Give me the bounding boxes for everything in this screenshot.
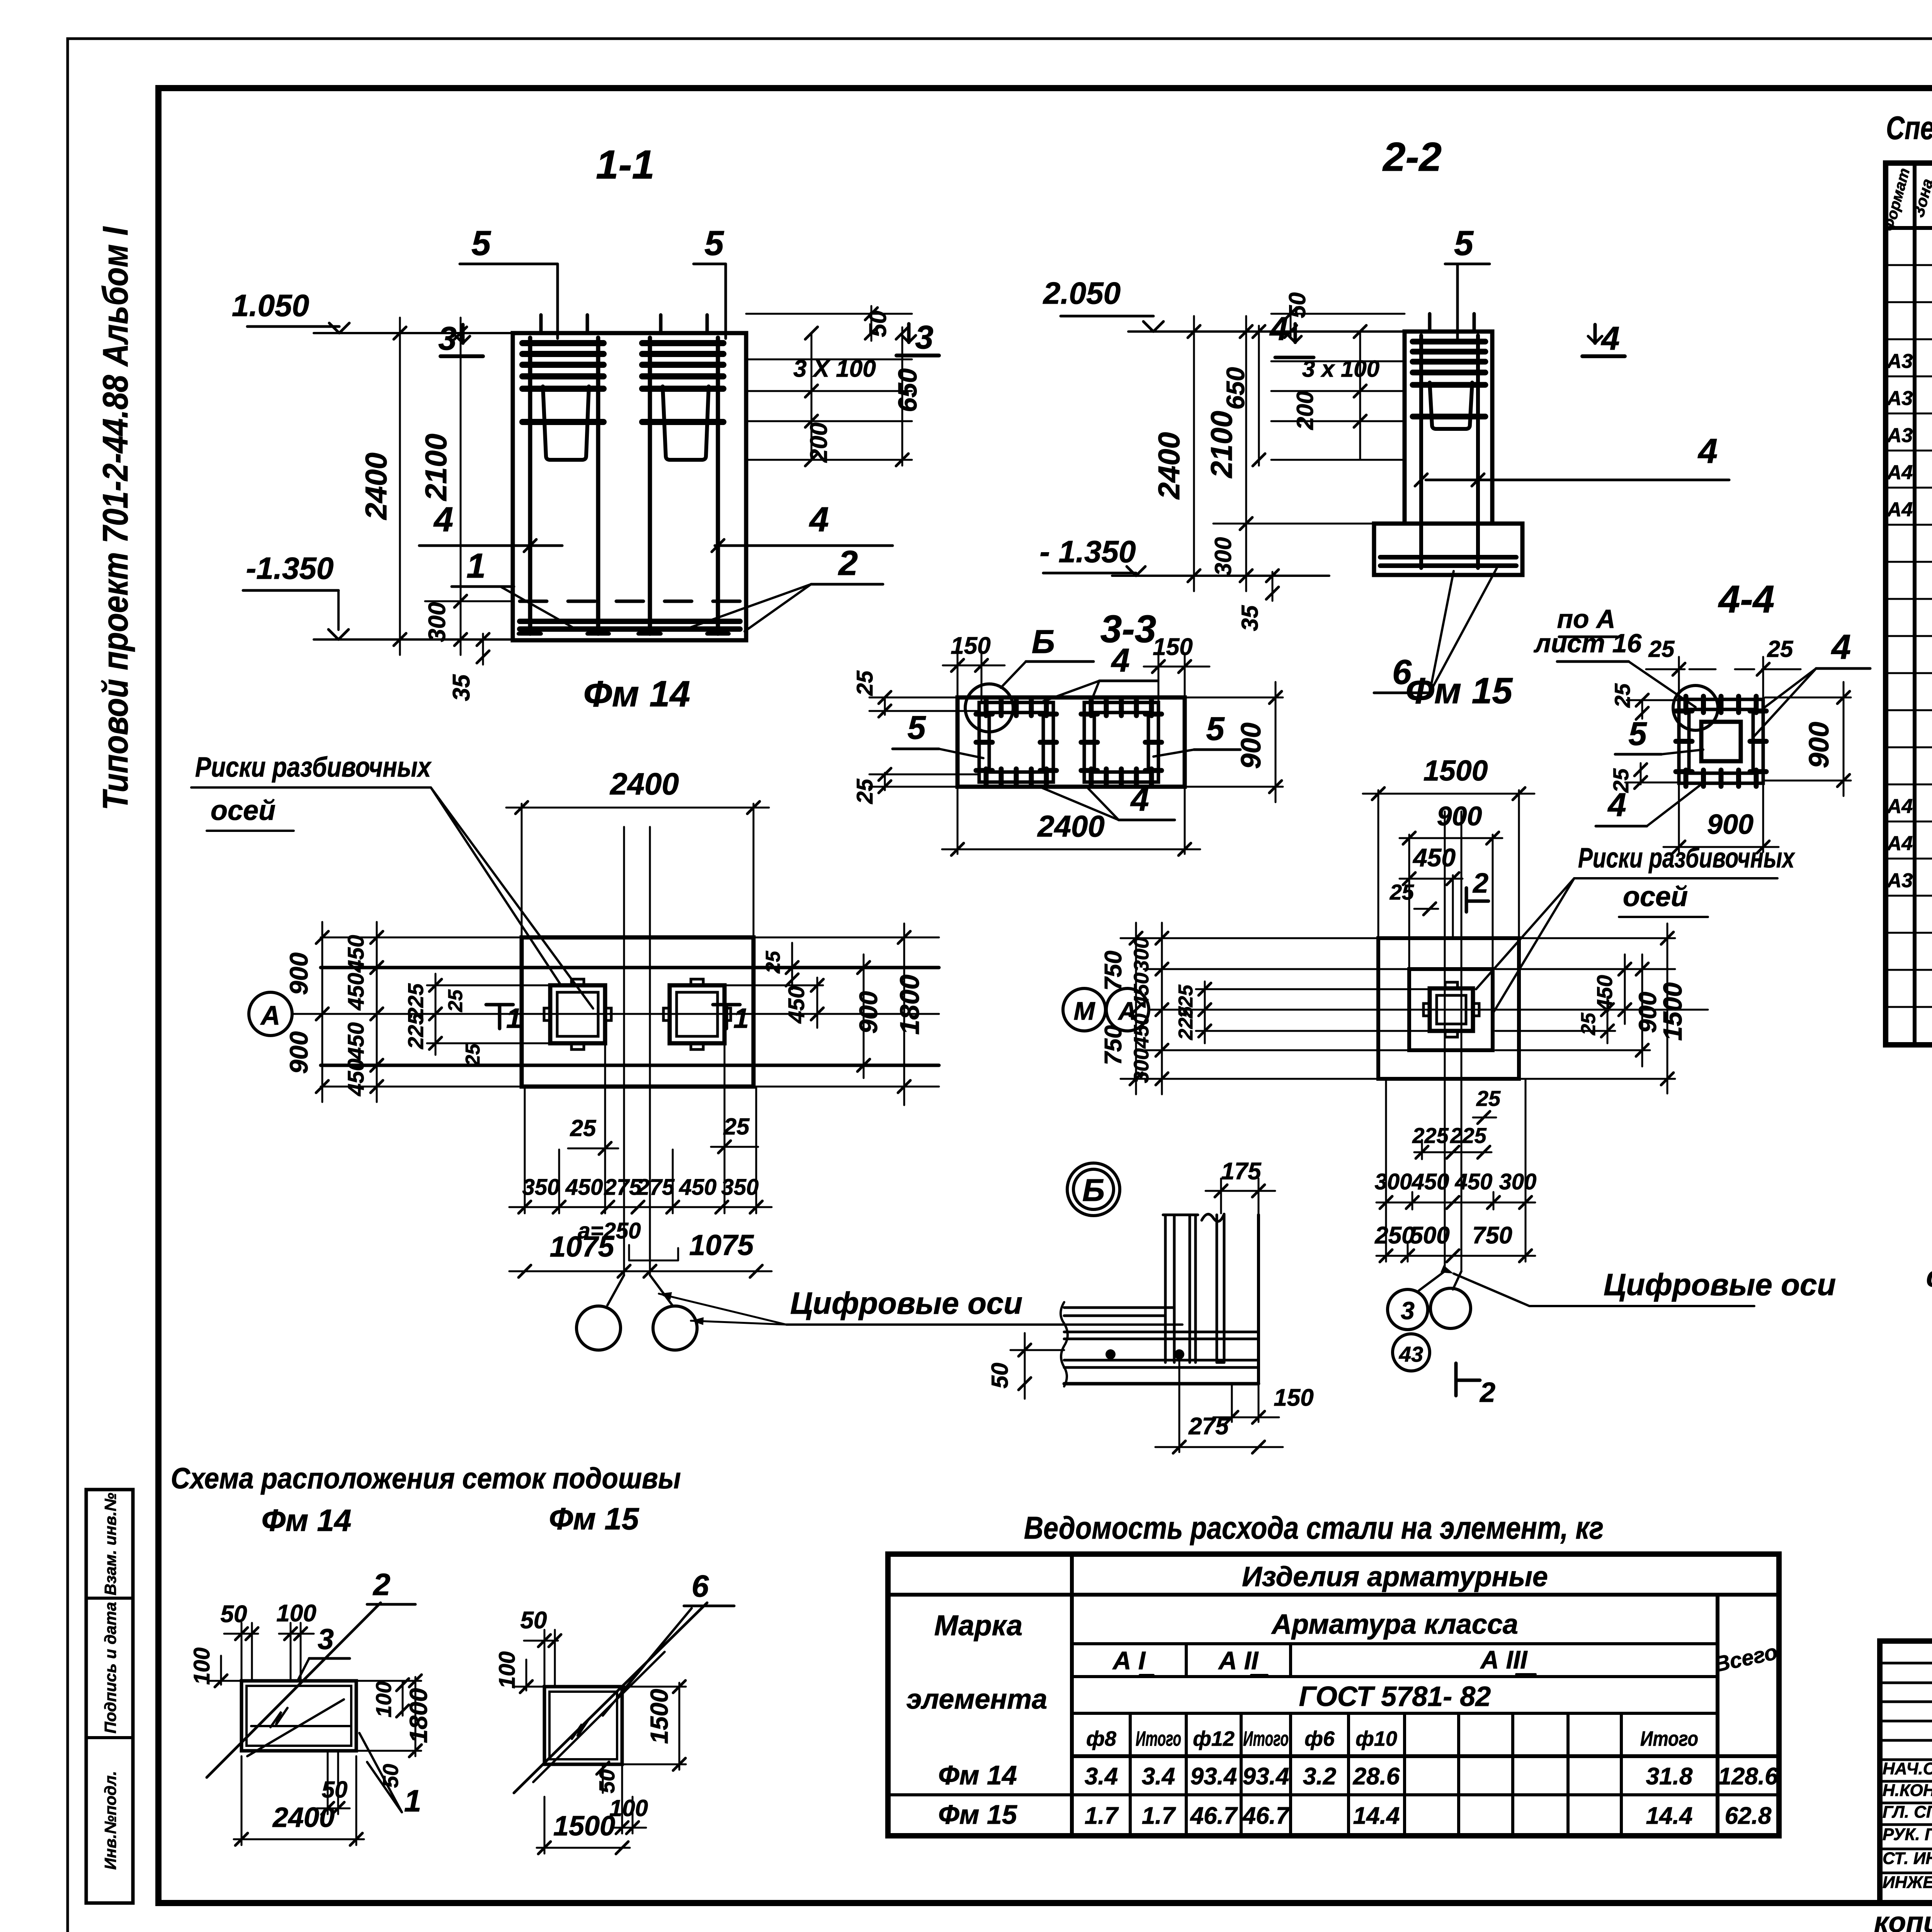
svg-text:100: 100 [371,1681,396,1717]
svg-text:Риски разбивочных: Риски разбивочных [1578,843,1795,874]
svg-text:ГОСТ 5781- 82: ГОСТ 5781- 82 [1299,1681,1491,1712]
axis circle A [249,992,292,1036]
svg-text:25: 25 [444,989,467,1012]
svg-text:25: 25 [462,1043,484,1066]
pocket 2 vertical rebars [648,338,652,634]
dim 35 below [482,634,484,665]
svg-text:2400: 2400 [1152,432,1186,500]
svg-text:25: 25 [1767,636,1794,662]
svg-text:2: 2 [372,1567,391,1602]
svg-text:25: 25 [723,1114,750,1139]
svg-text:1800: 1800 [405,1688,432,1743]
svg-text:25: 25 [762,951,784,974]
svg-text:50: 50 [987,1363,1013,1389]
svg-text:200: 200 [1292,391,1318,430]
svg-text:450: 450 [565,1175,603,1200]
svg-text:150: 150 [1274,1384,1313,1411]
svg-text:Марка: Марка [934,1609,1022,1641]
svg-text:50: 50 [865,311,891,337]
svg-text:5: 5 [907,709,926,746]
pocket 2 anchor bolts above top [659,315,663,333]
svg-text:1500: 1500 [553,1811,615,1842]
left dim chain 900/900 (FM14) [321,922,323,1102]
svg-text:Схема расположения сеток подош: Схема расположения сеток подошвы [171,1462,681,1495]
svg-text:225: 225 [1412,1123,1449,1148]
plan FM14 vertical axes [623,827,625,1275]
dim 2400 top (FM14) [506,807,769,809]
svg-text:900: 900 [1804,722,1835,768]
svg-text:4-4: 4-4 [1718,578,1775,621]
svg-text:25: 25 [1610,683,1634,708]
spec row lines [1886,264,1932,266]
detail Б column bars [1164,1215,1167,1362]
svg-text:350: 350 [522,1175,560,1200]
svg-text:А4: А4 [1886,795,1913,818]
svg-text:Б: Б [1082,1173,1105,1208]
svg-text:275: 275 [604,1175,642,1200]
svg-text:ИНЖЕНЕР: ИНЖЕНЕР [1883,1873,1932,1892]
dim 900 bottom (4-4) [1663,846,1779,848]
svg-text:2400: 2400 [272,1802,335,1833]
section mark 1 right (FM14) [713,1003,740,1007]
svg-text:1: 1 [733,1003,749,1034]
vertical rebars 2-2 [1419,335,1423,568]
dim 450 top (FM15) [1400,878,1463,880]
svg-text:225: 225 [1450,1123,1486,1148]
stakan (FM15) [1430,988,1473,1031]
svg-text:Фм 14: Фм 14 [262,1503,352,1537]
dim 2100/300 (2-2) [1245,316,1247,591]
steel table frame [888,1554,1779,1836]
svg-text:300: 300 [424,602,451,642]
svg-text:500: 500 [1410,1222,1449,1249]
svg-text:М: М [1074,997,1096,1025]
left chain 225/225 (FM15) [1204,981,1206,1043]
section mark 2 bottom (FM15) [1454,1363,1458,1396]
svg-text:СТ. ИНЖ.: СТ. ИНЖ. [1883,1849,1932,1868]
svg-text:Риски разбивочных: Риски разбивочных [195,752,432,783]
svg-text:осей: осей [1623,881,1688,912]
svg-text:900: 900 [1236,723,1267,769]
rebar dots [1105,1349,1116,1359]
svg-text:ГЛ. СПЕЦ.: ГЛ. СПЕЦ. [1883,1803,1932,1821]
left stamp boxes [86,1490,133,1903]
dim 900 right (3-3) [1275,682,1277,802]
svg-text:4: 4 [1130,781,1149,818]
svg-text:4: 4 [1111,642,1129,679]
svg-text:А4: А4 [1886,498,1913,521]
svg-text:ф6: ф6 [1304,1727,1335,1750]
dim 1500 top (FM15) [1363,793,1534,795]
svg-text:900: 900 [1707,809,1753,840]
svg-text:300: 300 [1375,1169,1412,1194]
svg-text:Изделия арматурные: Изделия арматурные [1242,1561,1548,1592]
svg-text:93.4: 93.4 [1243,1763,1289,1790]
svg-text:А I: А I [1112,1646,1146,1675]
svg-text:А III: А III [1480,1645,1528,1674]
svg-text:А4: А4 [1886,461,1913,484]
svg-text:- 1.350: - 1.350 [1039,534,1136,569]
svg-text:31.8: 31.8 [1646,1763,1693,1790]
FM14 mesh sketch [241,1681,356,1751]
mesh cage (4-4) [1679,699,1763,783]
anchor bolts above 2-2 [1428,314,1432,332]
svg-text:2.050: 2.050 [1043,276,1121,310]
svg-text:100: 100 [495,1651,520,1689]
svg-text:3: 3 [318,1623,334,1655]
dashed construction level in section 1-1 [520,600,740,603]
svg-text:750: 750 [1100,1025,1127,1065]
bottom mesh of footing 1-1 [520,619,740,624]
svg-text:300: 300 [1130,937,1153,972]
pocket 1 cup [543,386,589,460]
dim 2400 left [399,318,401,655]
svg-text:14.4: 14.4 [1646,1803,1693,1829]
section 1-1 concrete outline [513,333,746,640]
svg-text:4: 4 [1697,432,1718,471]
svg-text:2100: 2100 [419,434,453,502]
svg-text:900: 900 [284,952,313,995]
pocket bars 2-2 [1413,339,1485,345]
detail Б footing bars L [1064,1306,1174,1309]
svg-text:225: 225 [1175,1006,1197,1041]
pocket 1 vertical rebars [528,338,532,634]
section mark 3 right [907,324,911,342]
svg-text:750: 750 [1100,951,1127,990]
svg-text:43: 43 [1399,1342,1423,1366]
svg-text:93.4: 93.4 [1190,1763,1237,1790]
dim 900 right (4-4) [1843,682,1845,796]
svg-text:Инв.№подл.: Инв.№подл. [101,1771,119,1870]
svg-text:1500: 1500 [1423,754,1488,787]
svg-text:-1.350: -1.350 [246,551,334,585]
svg-text:450: 450 [1412,843,1456,872]
axis circles M A (FM15) [1063,988,1105,1031]
svg-text:46.7: 46.7 [1242,1803,1290,1829]
callout Б (3-3) [965,684,1013,732]
svg-text:1075: 1075 [550,1230,615,1263]
svg-text:62.8: 62.8 [1725,1803,1772,1829]
svg-text:слой указанный на чертеже.: слой указанный на чертеже. [1926,1260,1932,1293]
svg-text:900: 900 [1437,801,1482,831]
svg-text:ф12: ф12 [1193,1727,1235,1750]
svg-text:1500: 1500 [645,1689,673,1744]
svg-text:1.050: 1.050 [232,288,309,323]
svg-text:Н.КОНТР.: Н.КОНТР. [1883,1781,1932,1800]
svg-text:1.7: 1.7 [1142,1803,1176,1829]
pocket cup 2-2 [1430,383,1472,429]
svg-text:450: 450 [1455,1169,1493,1194]
svg-text:3 X 100: 3 X 100 [793,355,876,382]
svg-text:2: 2 [1479,1377,1495,1408]
anchor pocket 2 bars [642,340,723,346]
svg-text:Подпись и дата: Подпись и дата [101,1602,119,1733]
svg-text:4: 4 [1269,311,1288,347]
svg-text:275: 275 [1188,1413,1229,1440]
svg-text:450: 450 [679,1175,717,1200]
svg-text:ф8: ф8 [1086,1727,1116,1750]
svg-text:5: 5 [704,224,724,263]
left dim chain 450x4 (FM14) [376,922,378,1102]
svg-text:50: 50 [1284,293,1310,318]
plan FM15 axes [1444,811,1446,1271]
plan FM14 stakan 2 [670,985,724,1043]
svg-text:750: 750 [1472,1222,1512,1249]
svg-text:3: 3 [1401,1297,1415,1325]
pocket 1 anchor bolts above top [539,315,543,333]
podkolonnik square (FM15) [1409,969,1493,1050]
svg-text:25: 25 [852,779,878,804]
svg-text:50: 50 [520,1607,547,1634]
svg-text:4: 4 [1607,787,1626,823]
right dims 25/450 (FM14) [791,943,793,989]
svg-text:2100: 2100 [1204,411,1238,479]
section mark 4 right (2-2) [1594,325,1597,343]
svg-text:900: 900 [854,991,883,1034]
svg-text:2400: 2400 [1037,809,1105,843]
svg-text:А3: А3 [1886,387,1913,410]
svg-text:А: А [260,1000,281,1031]
FM14 diagonal leaders [207,1603,381,1777]
svg-text:25: 25 [1648,636,1675,662]
svg-text:450: 450 [344,973,369,1011]
svg-text:25: 25 [1577,1012,1600,1036]
footing mesh 2-2 [1380,555,1516,560]
svg-text:лист 16: лист 16 [1534,629,1642,658]
plan FM14 stakan 1 [550,985,605,1043]
FM15 mesh sketch [544,1687,622,1764]
svg-text:4: 4 [809,500,829,539]
spec table frame [1886,163,1932,1045]
svg-text:450: 450 [784,986,809,1024]
svg-text:4: 4 [433,500,453,539]
svg-text:1.7: 1.7 [1085,1803,1119,1829]
anchor pocket 1 bars [522,340,604,346]
left chain 300/450/450/300 (FM15) [1161,923,1163,1094]
spec header row [1886,226,1932,230]
svg-text:25: 25 [1389,880,1414,904]
svg-text:175: 175 [1221,1158,1262,1185]
right dim 1800 (FM14) [903,923,905,1105]
bottom chain 1075/1075 (FM14) [509,1270,772,1272]
svg-text:25: 25 [1476,1086,1501,1111]
svg-text:Цифровые оси: Цифровые оси [790,1286,1022,1320]
section mark 1 left (FM14) [486,1003,513,1007]
svg-text:3.4: 3.4 [1085,1763,1118,1790]
svg-text:900: 900 [1634,992,1662,1033]
svg-text:25: 25 [852,670,878,696]
svg-text:450: 450 [344,1022,369,1060]
svg-text:Типовой проект 701-2-44.88: Типовой проект 701-2-44.88 Альбом I [96,226,135,810]
svg-text:Ведомость расхода стали на эл: Ведомость расхода стали на элемент, кг [1024,1510,1604,1546]
svg-text:осей: осей [211,795,276,826]
right side pocket dims 1-1 [746,313,912,315]
svg-text:А3: А3 [1886,869,1913,892]
right dims (FM15) [1607,997,1609,1043]
svg-text:2: 2 [838,544,858,583]
svg-text:3.4: 3.4 [1142,1763,1175,1790]
svg-text:5: 5 [1206,711,1225,747]
left pocket dims 2-2 [1271,313,1405,315]
svg-text:5: 5 [1454,224,1474,263]
svg-text:35: 35 [1237,605,1263,631]
svg-text:1-1: 1-1 [596,142,655,187]
axis circles bottom (FM14) [577,1306,621,1350]
plan FM14 ext horizontals [321,937,522,939]
svg-text:200: 200 [806,422,832,463]
svg-text:5: 5 [1628,716,1647,752]
svg-text:450: 450 [344,1059,369,1097]
svg-text:2400: 2400 [609,767,679,801]
svg-text:650: 650 [893,368,922,412]
svg-text:Фм 15: Фм 15 [938,1799,1017,1830]
mesh cage square 1 (3-3) [979,702,1053,782]
plan FM14 footing outline [522,937,753,1087]
svg-text:46.7: 46.7 [1190,1803,1238,1829]
steel table verticals [1070,1554,1074,1836]
spec table verticals [1913,163,1917,1045]
svg-text:А II: А II [1218,1646,1259,1675]
svg-text:А3: А3 [1886,424,1913,447]
svg-text:3.2: 3.2 [1303,1763,1336,1790]
section mark 2 top (FM15) [1465,888,1468,912]
plan FM14 horizontal axis [293,1013,939,1015]
svg-text:Фм 14: Фм 14 [583,673,690,714]
mesh cage square 2 (3-3) [1084,702,1158,782]
svg-text:Итого: Итого [1243,1727,1289,1750]
svg-text:50: 50 [221,1601,247,1628]
svg-text:3 x 100: 3 x 100 [1302,356,1379,382]
inner cup (4-4) [1701,722,1741,761]
svg-text:Фм 14: Фм 14 [938,1760,1017,1790]
svg-text:300: 300 [1210,537,1236,576]
svg-text:А4: А4 [1886,832,1913,855]
right dim 900 (FM14) [863,954,865,1078]
detail Б right edge [1257,1215,1260,1384]
svg-text:Взам. инв.№: Взам. инв.№ [101,1493,119,1595]
svg-text:450: 450 [1130,1014,1153,1049]
svg-text:Итого: Итого [1640,1727,1698,1750]
svg-text:2400: 2400 [359,452,393,520]
svg-text:450: 450 [1130,973,1153,1008]
plan FM14 band lines [321,966,939,969]
svg-text:100: 100 [276,1600,316,1627]
svg-text:4: 4 [1600,320,1619,357]
svg-text:элемента: элемента [906,1684,1047,1715]
svg-text:3: 3 [438,320,456,357]
svg-text:450: 450 [1592,975,1617,1011]
dim 225/225 (FM14) [435,974,437,1055]
svg-text:НАЧ.ОТД.: НАЧ.ОТД. [1883,1759,1932,1778]
svg-text:35: 35 [448,674,475,701]
dim 2400 bottom (3-3) [942,849,1200,850]
svg-text:1075: 1075 [689,1229,754,1261]
svg-text:Б: Б [1032,624,1055,660]
svg-text:450: 450 [1412,1169,1449,1194]
svg-text:РУК. ГР.: РУК. ГР. [1883,1825,1932,1844]
svg-text:копировал:: копировал: [1874,1906,1932,1932]
steel table rows [888,1593,1779,1597]
dim 900 top (FM15) [1400,837,1502,839]
title block frame [1880,1641,1932,1903]
svg-text:25: 25 [570,1115,597,1141]
svg-text:1: 1 [506,1003,522,1034]
svg-text:А3: А3 [1886,350,1913,372]
FM14 dim 2400 [234,1838,364,1840]
svg-text:50: 50 [322,1777,348,1803]
svg-text:275: 275 [637,1175,675,1200]
svg-text:2: 2 [1472,868,1488,899]
svg-text:Спецификация на монолитные фу: Спецификация на монолитные фундаменты Фм… [1886,110,1932,146]
svg-text:50: 50 [378,1764,403,1788]
bottom chain 350/450/275/275/450/350 (FM14) [509,1206,772,1208]
svg-text:1500: 1500 [1658,982,1687,1041]
svg-text:300: 300 [1499,1169,1537,1194]
pocket 2 cup [663,386,709,460]
svg-text:Фм 15: Фм 15 [1406,670,1513,711]
section 3-3 body [957,697,1185,787]
svg-text:2-2: 2-2 [1382,134,1442,180]
FM15 dim 1500 [537,1847,630,1849]
svg-text:128.6: 128.6 [1718,1763,1778,1790]
title block left rows [1880,1662,1932,1665]
svg-text:250: 250 [1374,1222,1415,1249]
svg-text:Цифровые оси: Цифровые оси [1604,1267,1836,1302]
svg-text:1: 1 [404,1784,422,1818]
svg-text:Арматура класса: Арматура класса [1271,1609,1518,1640]
svg-text:650: 650 [1221,367,1250,410]
section 2-2 footing [1374,524,1522,575]
detail Б bottom outline [1064,1382,1259,1386]
svg-text:4: 4 [1831,628,1851,667]
svg-text:14.4: 14.4 [1353,1803,1400,1829]
left dim chain 750/750 (FM15) [1135,923,1137,1094]
svg-text:6: 6 [692,1569,709,1603]
svg-text:28.6: 28.6 [1353,1763,1400,1790]
svg-text:Фм 15: Фм 15 [549,1502,639,1536]
svg-text:1: 1 [466,547,486,585]
dim 2100 / 300 left [460,318,462,655]
svg-text:450: 450 [344,935,369,973]
svg-text:100: 100 [189,1648,214,1685]
section 2-2 column [1405,332,1492,524]
axis circles bottom (FM15) [1388,1289,1428,1330]
circle 43 [1393,1334,1430,1371]
plan FM15 outline [1378,938,1519,1079]
svg-text:1800: 1800 [895,975,925,1035]
svg-text:225: 225 [403,1012,428,1049]
svg-text:ф10: ф10 [1355,1727,1397,1750]
svg-text:5: 5 [471,224,492,263]
svg-text:900: 900 [284,1031,313,1074]
svg-text:Итого: Итого [1136,1727,1181,1750]
detail Б callout circle [1067,1163,1120,1216]
dim 2400 (2-2) [1193,316,1195,591]
svg-text:350: 350 [721,1175,759,1200]
svg-text:3: 3 [915,319,933,356]
